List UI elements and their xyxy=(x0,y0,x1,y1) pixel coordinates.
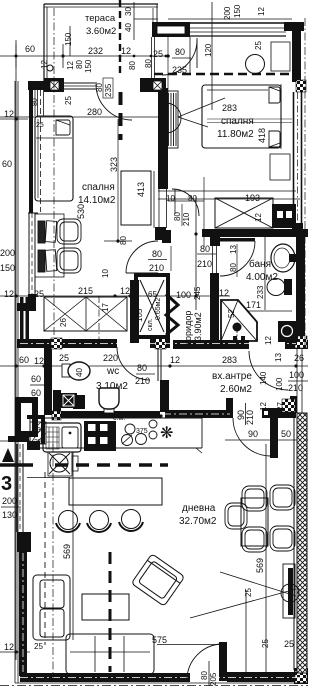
kitchen xyxy=(30,415,202,453)
bottom-right corner xyxy=(294,668,308,684)
svg-text:215: 215 xyxy=(78,286,93,296)
svg-text:60: 60 xyxy=(19,355,29,365)
beam dashes over bedroom2 xyxy=(154,73,292,75)
svg-text:60: 60 xyxy=(31,374,41,384)
svg-text:50: 50 xyxy=(281,429,291,439)
svg-text:12: 12 xyxy=(4,109,14,119)
sofa xyxy=(33,575,154,674)
closet skl xyxy=(136,275,168,337)
svg-text:спалня: спалня xyxy=(221,116,254,127)
svg-text:коридор: коридор xyxy=(183,311,193,345)
svg-text:0.65м2: 0.65м2 xyxy=(155,298,162,320)
black X box left xyxy=(60,393,77,408)
svg-text:25: 25 xyxy=(36,122,44,129)
fridge hatch xyxy=(30,422,46,444)
svg-text:12: 12 xyxy=(259,402,268,411)
svg-text:569: 569 xyxy=(255,558,265,573)
sink oval with 40 xyxy=(62,364,70,377)
svg-text:150: 150 xyxy=(64,32,73,46)
X wardrobe bottom xyxy=(44,297,127,331)
section lines xyxy=(0,92,168,672)
svg-text:413: 413 xyxy=(136,182,146,197)
wall left bedroom1 xyxy=(29,85,33,213)
middle wall piece between doors xyxy=(155,227,166,240)
bedroom2 west wall (middle wall) xyxy=(158,88,168,189)
svg-text:30: 30 xyxy=(124,7,133,16)
entrance hall xyxy=(170,351,308,456)
svg-text:баня: баня xyxy=(249,258,271,270)
svg-text:26: 26 xyxy=(294,353,304,363)
svg-text:65: 65 xyxy=(148,290,157,299)
bedroom1 door arc into room xyxy=(126,241,158,273)
svg-text:80: 80 xyxy=(152,249,162,259)
bath door post xyxy=(210,236,220,246)
axis dash-dot xyxy=(53,8,55,338)
svg-text:90: 90 xyxy=(248,429,258,439)
svg-text:210: 210 xyxy=(197,259,212,269)
svg-text:3: 3 xyxy=(37,427,41,434)
svg-text:80: 80 xyxy=(137,363,147,373)
svg-text:40: 40 xyxy=(124,23,133,32)
TV cabinet xyxy=(283,564,295,618)
svg-text:210: 210 xyxy=(288,383,303,393)
svg-text:спалня: спалня xyxy=(82,182,115,193)
svg-text:12: 12 xyxy=(120,286,130,296)
nightstand xyxy=(271,42,290,71)
svg-text:100: 100 xyxy=(289,370,304,380)
bath west wall lower xyxy=(210,273,219,348)
svg-text:12: 12 xyxy=(121,46,131,56)
right staircase wall hatch xyxy=(294,413,307,673)
living room xyxy=(33,452,299,686)
bath north wall xyxy=(202,229,308,237)
svg-text:210: 210 xyxy=(135,376,150,386)
dashed rail line xyxy=(119,0,121,76)
svg-text:25: 25 xyxy=(34,439,42,446)
vert ext line x265 bath xyxy=(264,236,266,310)
svg-text:205: 205 xyxy=(209,672,218,686)
svg-text:10: 10 xyxy=(101,269,110,278)
dim line top xyxy=(0,55,170,57)
dim line left vertical xyxy=(15,40,17,660)
wall left below window xyxy=(28,294,36,311)
bar stools xyxy=(56,510,143,533)
vert ext line x212 xyxy=(211,2,213,110)
svg-text:200: 200 xyxy=(223,6,232,20)
svg-text:283: 283 xyxy=(222,103,237,113)
svg-text:4.00м2: 4.00м2 xyxy=(246,272,278,283)
boiler circle with X xyxy=(48,452,72,476)
duct ring xyxy=(15,397,38,437)
svg-text:17: 17 xyxy=(101,303,110,312)
living door from hall xyxy=(233,418,271,456)
living west window y444-532 xyxy=(16,444,18,532)
sink unit xyxy=(43,423,81,452)
wall white X boxes on piers xyxy=(50,81,268,415)
sink circles near door xyxy=(149,420,157,428)
svg-text:120: 120 xyxy=(204,43,213,57)
svg-text:100: 100 xyxy=(275,377,284,391)
wall left living (lower) xyxy=(17,532,31,552)
svg-text:140: 140 xyxy=(259,371,268,385)
svg-text:100: 100 xyxy=(176,290,191,300)
svg-text:12: 12 xyxy=(4,289,14,299)
washing machine xyxy=(278,321,298,342)
svg-text:25: 25 xyxy=(284,639,294,649)
svg-text:52: 52 xyxy=(227,309,236,318)
svg-text:280: 280 xyxy=(87,107,102,117)
right wall upper xyxy=(292,25,301,82)
svg-text:12: 12 xyxy=(66,61,75,70)
svg-text:12: 12 xyxy=(4,642,14,652)
svg-text:2.60м2: 2.60м2 xyxy=(220,384,252,395)
bottom wall left part xyxy=(20,673,190,682)
kitchen/hall wall xyxy=(160,380,169,412)
svg-text:12: 12 xyxy=(170,355,180,365)
bedroom2 north wall frame xyxy=(152,22,190,37)
core: closet + corridor xyxy=(135,241,255,345)
leader lines to label xyxy=(178,98,225,117)
balcony door arc xyxy=(96,84,132,120)
wardrobe right xyxy=(121,171,151,225)
svg-text:245: 245 xyxy=(193,286,202,300)
bed xyxy=(202,85,281,148)
svg-text:12: 12 xyxy=(254,213,263,222)
desk and chairs xyxy=(35,214,64,277)
svg-text:80: 80 xyxy=(229,263,238,272)
bath door leaf closed xyxy=(220,238,255,242)
svg-text:530: 530 xyxy=(76,204,86,219)
svg-text:25: 25 xyxy=(59,353,69,363)
bedroom1 SE wall by closet xyxy=(130,280,139,343)
svg-text:дневна: дневна xyxy=(182,503,216,514)
pier NE of terrace xyxy=(140,78,166,92)
svg-text:80: 80 xyxy=(75,60,84,69)
wall left mid xyxy=(20,297,24,348)
svg-text:тераса: тераса xyxy=(85,13,116,24)
stove xyxy=(84,421,116,451)
svg-text:12: 12 xyxy=(34,356,44,366)
svg-text:13: 13 xyxy=(229,245,238,254)
svg-text:13: 13 xyxy=(274,353,283,362)
svg-text:26: 26 xyxy=(59,318,68,327)
svg-text:вх.антре: вх.антре xyxy=(212,371,252,382)
pier NW with X xyxy=(44,78,64,92)
svg-text:❋: ❋ xyxy=(160,425,173,442)
wall layer lines xyxy=(34,90,36,116)
wc room xyxy=(59,347,155,413)
svg-text:210: 210 xyxy=(245,410,255,425)
svg-text:3: 3 xyxy=(1,473,12,495)
bedroom1 north window x63-96 xyxy=(63,82,97,84)
wall top-left horizontal (bedroom1 north) xyxy=(28,81,48,90)
svg-text:569: 569 xyxy=(62,544,72,559)
svg-text:232: 232 xyxy=(88,46,103,56)
radiator on west wall xyxy=(166,91,178,148)
svg-text:25: 25 xyxy=(244,588,253,597)
svg-text:60: 60 xyxy=(2,159,12,169)
chairs xyxy=(225,485,295,552)
shower xyxy=(221,300,257,341)
bottom exterior face xyxy=(15,682,308,684)
lamp circle xyxy=(246,55,265,74)
svg-text:150: 150 xyxy=(233,4,242,18)
svg-text:80: 80 xyxy=(128,61,137,70)
wall step horizontal xyxy=(17,303,36,311)
dim line y436 entrance xyxy=(225,439,308,441)
svg-text:10: 10 xyxy=(166,194,175,203)
checker boxes xyxy=(51,80,307,683)
bath shaft black xyxy=(272,204,296,228)
top right corner wall xyxy=(284,22,304,31)
tick at 60 xyxy=(15,44,17,68)
svg-text:12: 12 xyxy=(219,288,229,298)
shaft X box left xyxy=(215,198,273,228)
bathroom xyxy=(215,198,298,345)
svg-text:80: 80 xyxy=(175,47,185,57)
accordion door xyxy=(166,294,178,335)
vert ext x266 living xyxy=(265,444,267,672)
terrace xyxy=(44,0,158,678)
vert ext x246 living xyxy=(245,590,247,672)
svg-text:375: 375 xyxy=(136,428,148,435)
bath south / entry north wall xyxy=(17,339,52,348)
bedroom2 xyxy=(104,38,296,247)
armchair tilted xyxy=(131,554,184,606)
svg-text:32.70м2: 32.70м2 xyxy=(179,516,217,527)
svg-text:235: 235 xyxy=(104,83,113,97)
svg-text:283: 283 xyxy=(222,355,237,365)
dim line y440 xyxy=(0,440,30,442)
svg-text:wc: wc xyxy=(106,366,119,377)
svg-text:27: 27 xyxy=(276,402,285,411)
svg-text:80: 80 xyxy=(173,212,182,221)
dim line y199 core xyxy=(158,198,300,200)
vert ext line x196 xyxy=(195,196,197,310)
svg-text:с.м.: с.м. xyxy=(113,415,125,422)
svg-text:80: 80 xyxy=(188,194,197,203)
svg-text:80: 80 xyxy=(200,671,209,680)
dim line y118 xyxy=(0,118,28,120)
bedroom1 west window y213-295 xyxy=(28,213,30,295)
svg-text:скл.: скл. xyxy=(147,318,154,331)
svg-text:12: 12 xyxy=(264,336,273,345)
entrance door arc xyxy=(249,351,288,390)
kitchen floor line xyxy=(72,452,74,640)
svg-text:25: 25 xyxy=(261,639,270,648)
svg-text:60: 60 xyxy=(31,388,41,398)
svg-text:575: 575 xyxy=(152,635,167,645)
bar counter xyxy=(69,478,162,505)
wc door arc xyxy=(117,347,150,380)
svg-text:418: 418 xyxy=(257,128,267,143)
vert ext line x134 terrace xyxy=(133,2,135,40)
counter outline xyxy=(30,417,202,419)
svg-text:60: 60 xyxy=(25,44,35,54)
svg-text:200: 200 xyxy=(0,248,15,258)
svg-text:150: 150 xyxy=(0,263,15,273)
svg-text:11.80м2: 11.80м2 xyxy=(217,129,254,140)
wall under x-wardrobe xyxy=(24,339,62,347)
bottom door arc xyxy=(187,644,223,680)
pillows xyxy=(269,87,280,103)
svg-text:25: 25 xyxy=(34,642,43,651)
bath door arc xyxy=(220,241,255,276)
toilet xyxy=(104,406,114,413)
svg-text:25: 25 xyxy=(254,41,263,50)
svg-text:323: 323 xyxy=(109,157,119,172)
svg-text:25: 25 xyxy=(64,96,73,105)
bottom wall right part xyxy=(227,672,308,682)
right landing face lines xyxy=(296,349,298,413)
bed xyxy=(35,116,73,201)
svg-text:171: 171 xyxy=(246,300,261,310)
bedroom2 corridor door arc xyxy=(172,189,199,216)
svg-text:3.60м2: 3.60м2 xyxy=(86,26,116,37)
right wall axis dash-dot xyxy=(304,18,306,345)
svg-text:12: 12 xyxy=(257,7,266,16)
svg-text:80: 80 xyxy=(200,244,210,254)
bottom door leaf xyxy=(219,642,227,681)
bedroom1 xyxy=(0,84,171,345)
dim line top window b2 xyxy=(168,18,292,20)
svg-text:40: 40 xyxy=(75,368,84,377)
toilet xyxy=(267,279,285,296)
svg-text:233: 233 xyxy=(256,285,265,299)
svg-text:150: 150 xyxy=(84,59,93,73)
dim line y652 xyxy=(0,651,30,653)
left exterior face double line xyxy=(14,81,16,683)
svg-text:210: 210 xyxy=(149,263,164,273)
svg-text:3.90м2: 3.90м2 xyxy=(193,312,203,341)
right wall bath xyxy=(296,232,305,342)
svg-text:210: 210 xyxy=(182,212,191,226)
wall wc west xyxy=(44,339,52,415)
svg-text:105: 105 xyxy=(135,308,144,322)
coffee table xyxy=(82,594,129,620)
svg-text:80: 80 xyxy=(32,98,39,106)
dim line y311 bath xyxy=(248,310,292,312)
dining table xyxy=(241,498,268,546)
dim line y296 xyxy=(0,295,230,297)
svg-text:80: 80 xyxy=(119,236,128,245)
dim line y366 xyxy=(0,365,308,367)
wall right of living door xyxy=(262,408,287,418)
pillow xyxy=(56,120,70,135)
entrance right jamb xyxy=(290,396,297,413)
svg-text:220: 220 xyxy=(103,353,118,363)
washbasin xyxy=(271,244,295,272)
small circle handle xyxy=(47,65,53,71)
terrace door arc xyxy=(162,40,197,75)
shaft white squares xyxy=(277,211,283,218)
bedroom2 north window xyxy=(186,22,286,24)
